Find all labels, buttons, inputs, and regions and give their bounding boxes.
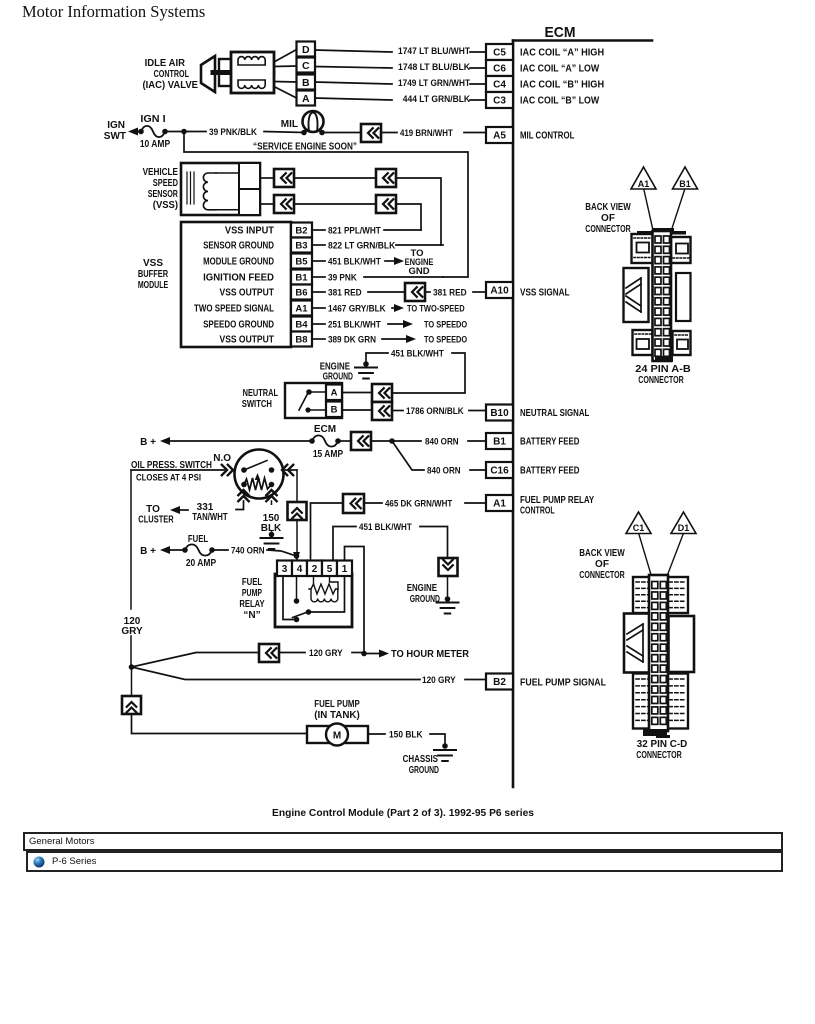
IAC valve shaft: [213, 70, 273, 75]
svg-text:D: D: [302, 44, 310, 56]
fuel pump body: [307, 726, 368, 743]
relay pin 3: [277, 561, 292, 577]
wire fuse to label: [212, 549, 228, 551]
wire B5 451 BLK/WHT to engine gnd: [312, 260, 325, 262]
svg-text:B2: B2: [493, 677, 506, 688]
svg-text:FUEL PUMP: FUEL PUMP: [314, 699, 360, 710]
svg-text:10 AMP: 10 AMP: [140, 139, 171, 150]
wire coil to A: [274, 87, 297, 99]
neutral switch pin B: [326, 402, 342, 418]
svg-text:IAC COIL “B” LOW: IAC COIL “B” LOW: [520, 96, 600, 107]
connector view A-B triangles: [631, 167, 656, 189]
32 pin connector bottom block: [633, 674, 688, 729]
svg-text:(IAC) VALVE: (IAC) VALVE: [143, 80, 199, 91]
relay contact to pin1: [309, 576, 345, 612]
ECM pin B1: [486, 433, 513, 449]
svg-text:C16: C16: [490, 466, 509, 477]
wire to chassis ground: [430, 734, 445, 745]
svg-text:GRY: GRY: [121, 626, 143, 637]
svg-text:IAC COIL “A” HIGH: IAC COIL “A” HIGH: [520, 48, 604, 59]
node left rail junction: [129, 664, 135, 670]
24 pin connector mid-left block: [624, 268, 649, 322]
svg-text:A1: A1: [295, 303, 308, 314]
svg-text:BATTERY FEED: BATTERY FEED: [520, 437, 579, 448]
wire IAC C4: [315, 82, 392, 84]
oil pressure switch circle: [235, 450, 284, 499]
connector VSS top 1: [274, 169, 294, 187]
wire 451 BLK/WHT neutral A: [366, 353, 388, 364]
relay pin 2: [307, 561, 322, 577]
svg-text:CLOSES AT 4 PSI: CLOSES AT 4 PSI: [136, 473, 201, 484]
svg-text:MIL CONTROL: MIL CONTROL: [520, 131, 574, 142]
relay body: [275, 574, 352, 627]
relay internal pin3 wire: [283, 576, 296, 620]
node junction MIL row: [181, 129, 187, 135]
svg-text:15 AMP: 15 AMP: [313, 449, 344, 460]
wire rail to fuel pump: [132, 714, 308, 734]
svg-text:A: A: [302, 93, 310, 105]
svg-text:BATTERY FEED: BATTERY FEED: [520, 466, 579, 477]
svg-text:TO SPEEDO: TO SPEEDO: [424, 320, 467, 331]
oil switch chevrons bottom-right: [266, 490, 276, 495]
sphere icon: [33, 856, 45, 868]
24 pin connector top tab: [652, 228, 674, 235]
fuel pump motor M: [326, 724, 348, 746]
svg-text:VSS OUTPUT: VSS OUTPUT: [220, 334, 275, 345]
svg-text:C: C: [302, 60, 310, 72]
wire 1786 ORN/BLK: [392, 410, 403, 412]
svg-text:C3: C3: [493, 96, 506, 107]
IAC pin B: [297, 75, 316, 90]
svg-text:B2: B2: [295, 225, 307, 236]
svg-text:3: 3: [282, 564, 288, 575]
svg-text:451 BLK/WHT: 451 BLK/WHT: [328, 256, 381, 267]
24 pin connector bottom-left block: [633, 330, 653, 355]
svg-text:A5: A5: [493, 131, 506, 142]
relay arrowhead pin4: [293, 552, 300, 560]
svg-text:39 PNK: 39 PNK: [328, 272, 357, 283]
svg-text:B1: B1: [493, 437, 506, 448]
svg-text:CONNECTOR: CONNECTOR: [579, 570, 625, 581]
wire fuse to junction: [165, 131, 206, 133]
svg-text:ECM: ECM: [545, 24, 576, 41]
svg-text:VSS OUTPUT: VSS OUTPUT: [220, 287, 275, 298]
oil switch chevrons right: [282, 465, 287, 475]
svg-text:B5: B5: [295, 256, 308, 267]
relay internal pin4 wire: [296, 576, 298, 601]
wire IAC C3: [315, 98, 392, 100]
svg-text:GROUND: GROUND: [323, 372, 353, 383]
wire C1 pointer: [639, 535, 652, 579]
wire left rail top: [131, 469, 224, 471]
oil switch chevrons bottom-left: [238, 490, 248, 495]
wire VSS top: [260, 177, 274, 179]
svg-text:B3: B3: [295, 240, 307, 251]
svg-text:B6: B6: [295, 287, 307, 298]
svg-text:SENSOR GROUND: SENSOR GROUND: [203, 240, 274, 251]
32 pin connector central strip: [649, 575, 668, 731]
switch contacts: [241, 467, 247, 473]
wire fuse to connector: [338, 440, 351, 442]
24 pin connector central strip: [653, 231, 672, 361]
wire diagonal to fuel pump signal row: [132, 667, 421, 680]
svg-text:A10: A10: [490, 286, 509, 297]
wire label 120 GRY hour meter: [279, 652, 305, 654]
ECM pin B2: [486, 674, 513, 690]
24 pin connector mid-right block: [676, 273, 691, 321]
wire VSS bottom to B2: [396, 204, 421, 230]
IAC valve cone: [201, 56, 215, 92]
svg-text:B: B: [331, 405, 338, 416]
svg-text:TO SPEEDO: TO SPEEDO: [424, 335, 467, 346]
wire to junction: [371, 440, 421, 442]
svg-text:C5: C5: [493, 48, 506, 59]
ECM pin A5: [486, 127, 513, 143]
svg-text:451 BLK/WHT: 451 BLK/WHT: [359, 522, 412, 533]
svg-text:MODULE GROUND: MODULE GROUND: [203, 256, 274, 267]
svg-text:TO: TO: [146, 504, 160, 515]
wire B8 389 DK GRN: [312, 338, 325, 340]
wire diagonal to C16: [392, 441, 424, 470]
svg-text:“SERVICE ENGINE SOON”: “SERVICE ENGINE SOON”: [253, 142, 357, 153]
svg-text:A1: A1: [638, 179, 650, 189]
IAC pin A: [297, 91, 316, 106]
wire label 419 BRN/WHT: [381, 132, 397, 134]
svg-text:822 LT GRN/BLK: 822 LT GRN/BLK: [328, 240, 395, 251]
svg-text:B4: B4: [295, 319, 308, 330]
svg-text:B: B: [302, 77, 310, 89]
svg-text:IDLE AIR: IDLE AIR: [145, 58, 186, 69]
relay lever: [293, 612, 310, 618]
svg-text:840 ORN: 840 ORN: [427, 465, 461, 476]
wire 150 BLK to ground: [271, 501, 273, 531]
wire B3 822 LT GRN/BLK: [312, 244, 325, 246]
ground 150 BLK: [269, 532, 275, 538]
svg-text:SWITCH: SWITCH: [242, 399, 272, 410]
svg-text:B +: B +: [140, 437, 156, 448]
svg-text:GROUND: GROUND: [410, 594, 440, 605]
svg-text:C1: C1: [633, 523, 645, 533]
svg-text:840 ORN: 840 ORN: [425, 436, 459, 447]
stub to 331 TAN/WHT: [236, 501, 244, 510]
wire coil to D: [274, 50, 297, 63]
connector ECM fuse: [351, 432, 371, 450]
svg-text:CONNECTOR: CONNECTOR: [638, 375, 684, 386]
32 pin connector mid-right block: [669, 616, 695, 672]
ECM pin A1: [486, 495, 513, 511]
svg-text:ECM: ECM: [314, 424, 336, 435]
ECM vertical bus line: [512, 41, 515, 788]
wire diagonal to hour meter row: [132, 653, 260, 668]
arrow B+ ecm: [160, 437, 170, 445]
svg-text:CONTROL: CONTROL: [520, 506, 555, 517]
svg-text:251 BLK/WHT: 251 BLK/WHT: [328, 319, 381, 330]
svg-text:CLUSTER: CLUSTER: [138, 515, 174, 526]
svg-text:SPEED: SPEED: [153, 178, 178, 189]
svg-text:IAC COIL “B” HIGH: IAC COIL “B” HIGH: [520, 80, 604, 91]
svg-text:C6: C6: [493, 64, 506, 75]
svg-text:BACK VIEW: BACK VIEW: [579, 548, 625, 559]
svg-text:A: A: [331, 388, 338, 399]
svg-text:1749 LT GRN/WHT: 1749 LT GRN/WHT: [398, 78, 470, 89]
IAC coil A: [238, 57, 265, 65]
wire 451 BLK/WHT relay: [333, 527, 356, 561]
wire B2 821 PPL/WHT: [312, 229, 325, 231]
left rail vertical: [130, 470, 132, 609]
connector left rail: [131, 667, 133, 696]
svg-text:A1: A1: [493, 499, 506, 510]
svg-text:C4: C4: [493, 80, 506, 91]
svg-text:NEUTRAL: NEUTRAL: [243, 388, 278, 399]
svg-text:SWT: SWT: [104, 131, 126, 142]
svg-text:1747 LT BLU/WHT: 1747 LT BLU/WHT: [398, 46, 470, 57]
svg-text:OF: OF: [601, 213, 615, 224]
wire B1 pointer: [669, 190, 685, 239]
svg-text:GND: GND: [408, 266, 429, 277]
ECM pin C4: [486, 76, 513, 92]
svg-text:M: M: [333, 731, 341, 742]
wire relay pin1 to hour meter row: [345, 547, 365, 654]
IAC valve stem: [219, 59, 232, 86]
svg-text:451 BLK/WHT: 451 BLK/WHT: [391, 348, 444, 359]
svg-text:TAN/WHT: TAN/WHT: [192, 512, 227, 523]
svg-text:120 GRY: 120 GRY: [309, 648, 343, 659]
connector VSS top 2: [376, 169, 396, 187]
VSS pin cells: [238, 163, 240, 215]
svg-text:39 PNK/BLK: 39 PNK/BLK: [209, 127, 257, 138]
24 pin connector bottom-right block: [673, 331, 691, 355]
svg-text:PUMP: PUMP: [242, 588, 262, 599]
svg-text:“N”: “N”: [243, 610, 260, 621]
svg-text:ENGINE: ENGINE: [407, 583, 438, 594]
VSS sensor box: [181, 163, 260, 215]
svg-text:FUEL: FUEL: [188, 534, 208, 545]
footer table: [23, 832, 783, 851]
svg-text:2: 2: [312, 564, 318, 575]
svg-text:VSS INPUT: VSS INPUT: [225, 225, 274, 236]
svg-text:CHASSIS: CHASSIS: [403, 754, 439, 765]
svg-text:4: 4: [297, 564, 303, 575]
arrow TO CLUSTER: [170, 506, 180, 514]
svg-text:MODULE: MODULE: [138, 280, 169, 291]
svg-text:VEHICLE: VEHICLE: [143, 167, 179, 178]
svg-text:1467 GRY/BLK: 1467 GRY/BLK: [328, 303, 386, 314]
VSS hash marks: [186, 172, 188, 204]
svg-text:419 BRN/WHT: 419 BRN/WHT: [400, 128, 453, 139]
IAC coil B: [238, 80, 265, 88]
svg-text:OF: OF: [595, 559, 609, 570]
svg-text:NEUTRAL SIGNAL: NEUTRAL SIGNAL: [520, 408, 589, 419]
wire B1 39 PNK: [312, 276, 325, 278]
label 150 BLK: [258, 505, 285, 531]
wire VSS top to B3: [396, 178, 443, 245]
svg-text:SENSOR: SENSOR: [148, 189, 179, 200]
svg-text:TWO SPEED SIGNAL: TWO SPEED SIGNAL: [194, 303, 274, 314]
relay coil: [309, 584, 338, 594]
32 pin connector top block: [633, 577, 688, 613]
node pin4 junction: [294, 553, 300, 559]
wire pin2 to connector 465: [311, 503, 344, 560]
svg-text:VSS: VSS: [143, 258, 163, 269]
svg-text:FUEL PUMP RELAY: FUEL PUMP RELAY: [520, 495, 595, 506]
node hour meter junction: [361, 651, 367, 657]
arrow B+ fuel: [160, 546, 170, 554]
connector 465 row: [343, 494, 364, 513]
svg-text:FUEL: FUEL: [242, 577, 262, 588]
svg-text:TO HOUR METER: TO HOUR METER: [391, 649, 469, 660]
wire VSS bottom: [260, 203, 274, 205]
connector engine ground 2: [439, 558, 458, 576]
svg-text:B +: B +: [140, 546, 156, 557]
svg-text:Engine Control Module (Part 2: Engine Control Module (Part 2 of 3). 199…: [272, 807, 534, 819]
VSS buffer module box: [181, 222, 291, 347]
wire IAC C6: [315, 67, 392, 69]
svg-text:381 RED: 381 RED: [433, 287, 467, 298]
svg-text:381 RED: 381 RED: [328, 287, 362, 298]
wire label 465 DK GRN/WHT: [364, 502, 382, 504]
svg-text:1: 1: [342, 564, 348, 575]
connector view C-D triangles: [626, 512, 651, 534]
wire lamp to connector: [322, 132, 361, 134]
arrow to IGN SWT: [128, 128, 138, 136]
svg-text:N.O: N.O: [213, 453, 231, 464]
relay pin 4: [292, 561, 307, 577]
svg-text:IAC COIL “A” LOW: IAC COIL “A” LOW: [520, 64, 600, 75]
relay pin 1: [337, 561, 352, 577]
svg-text:B10: B10: [490, 408, 509, 419]
svg-text:B1: B1: [679, 179, 691, 189]
ECM pin C16: [486, 462, 513, 478]
node battery junction: [389, 438, 395, 444]
svg-text:CONNECTOR: CONNECTOR: [585, 224, 631, 235]
svg-text:B8: B8: [295, 334, 307, 345]
svg-text:CONTROL: CONTROL: [154, 69, 189, 80]
relay pin 5: [322, 561, 337, 577]
svg-text:5: 5: [327, 564, 333, 575]
neutral switch pin A: [326, 385, 342, 401]
32 pin connector bottom tab: [643, 729, 667, 736]
wire A1 1467 GRY/BLK: [312, 307, 325, 309]
24 pin connector top-right block: [671, 237, 691, 263]
IAC valve body: [231, 52, 274, 93]
svg-text:389 DK GRN: 389 DK GRN: [328, 334, 376, 345]
32 pin connector mid-left block: [624, 614, 650, 673]
wire coil to B: [274, 81, 297, 84]
rheostat: [244, 478, 272, 490]
chassis ground: [442, 743, 448, 749]
relay internal pin2 wire: [313, 576, 315, 585]
ECM pin B10: [486, 405, 513, 421]
svg-text:32 PIN C-D: 32 PIN C-D: [637, 739, 688, 750]
wire 740 ORN to pin4: [267, 550, 297, 556]
ECM pin C3: [486, 92, 513, 108]
svg-text:465 DK GRN/WHT: 465 DK GRN/WHT: [385, 498, 452, 509]
VSS coil: [203, 173, 216, 210]
ECM pin A10: [486, 282, 513, 298]
wire B6 381 RED: [312, 291, 325, 293]
svg-text:MIL: MIL: [281, 119, 298, 130]
svg-text:FUEL PUMP SIGNAL: FUEL PUMP SIGNAL: [520, 678, 606, 689]
wire IAC C5: [315, 50, 392, 52]
svg-text:SPEEDO GROUND: SPEEDO GROUND: [203, 319, 274, 330]
connector pin4 line: [288, 502, 307, 520]
svg-text:1748 LT BLU/BLK: 1748 LT BLU/BLK: [398, 62, 470, 73]
relay internal pin5 wire: [330, 576, 339, 590]
svg-text:VSS SIGNAL: VSS SIGNAL: [520, 288, 570, 299]
svg-text:150 BLK: 150 BLK: [389, 729, 423, 740]
ECM pin C5: [486, 44, 513, 60]
connector VSS bot 1: [274, 195, 294, 213]
oil switch chevrons left: [222, 465, 227, 475]
wire label 150 BLK pump: [368, 733, 385, 735]
svg-text:20 AMP: 20 AMP: [186, 558, 217, 569]
wire B4 251 BLK/WHT: [312, 323, 325, 325]
connector neutral B: [372, 402, 392, 420]
svg-text:IGN: IGN: [107, 120, 125, 131]
24 pin connector top-left block: [632, 234, 654, 263]
svg-text:(IN TANK): (IN TANK): [314, 710, 360, 721]
wire oil switch to relay pin 4: [296, 470, 298, 502]
svg-text:TO TWO-SPEED: TO TWO-SPEED: [407, 304, 465, 315]
svg-text:D1: D1: [678, 523, 690, 533]
neutral switch contacts: [309, 391, 326, 393]
svg-text:BUFFER: BUFFER: [138, 269, 169, 280]
connector hour meter row: [259, 644, 279, 662]
wire right of switch: [284, 469, 298, 471]
svg-text:821 PPL/WHT: 821 PPL/WHT: [328, 225, 381, 236]
svg-text:740 ORN: 740 ORN: [231, 545, 265, 556]
24 pin connector bottom tab: [655, 356, 673, 362]
IAC pin D: [297, 42, 316, 57]
svg-text:1786 ORN/BLK: 1786 ORN/BLK: [406, 406, 464, 417]
svg-text:RELAY: RELAY: [239, 599, 264, 610]
svg-text:CONNECTOR: CONNECTOR: [636, 750, 682, 761]
neutral switch box: [285, 383, 342, 418]
connector VSS bot 2: [376, 195, 396, 213]
svg-text:GROUND: GROUND: [409, 765, 439, 776]
wire D1 pointer: [666, 535, 684, 581]
ECM pin C6: [486, 60, 513, 76]
svg-text:IGN I: IGN I: [140, 114, 165, 125]
wire 39 PNK feed path: [184, 132, 468, 278]
svg-text:Motor Information Systems: Motor Information Systems: [22, 2, 205, 21]
svg-text:BACK VIEW: BACK VIEW: [585, 202, 631, 213]
connector neutral A: [372, 384, 392, 402]
IAC pin C: [297, 58, 316, 73]
svg-text:B1: B1: [295, 272, 308, 283]
wire coil to C: [274, 65, 297, 68]
connector B6: [405, 283, 425, 301]
svg-text:IGNITION FEED: IGNITION FEED: [203, 272, 274, 283]
ECM top line: [513, 39, 652, 42]
svg-text:120 GRY: 120 GRY: [422, 675, 456, 686]
svg-text:24 PIN A-B: 24 PIN A-B: [635, 364, 691, 375]
wire A1 pointer: [644, 190, 655, 237]
svg-text:444 LT GRN/BLK: 444 LT GRN/BLK: [403, 94, 470, 105]
svg-text:(VSS): (VSS): [153, 200, 178, 211]
connector in MIL wire: [361, 124, 381, 142]
